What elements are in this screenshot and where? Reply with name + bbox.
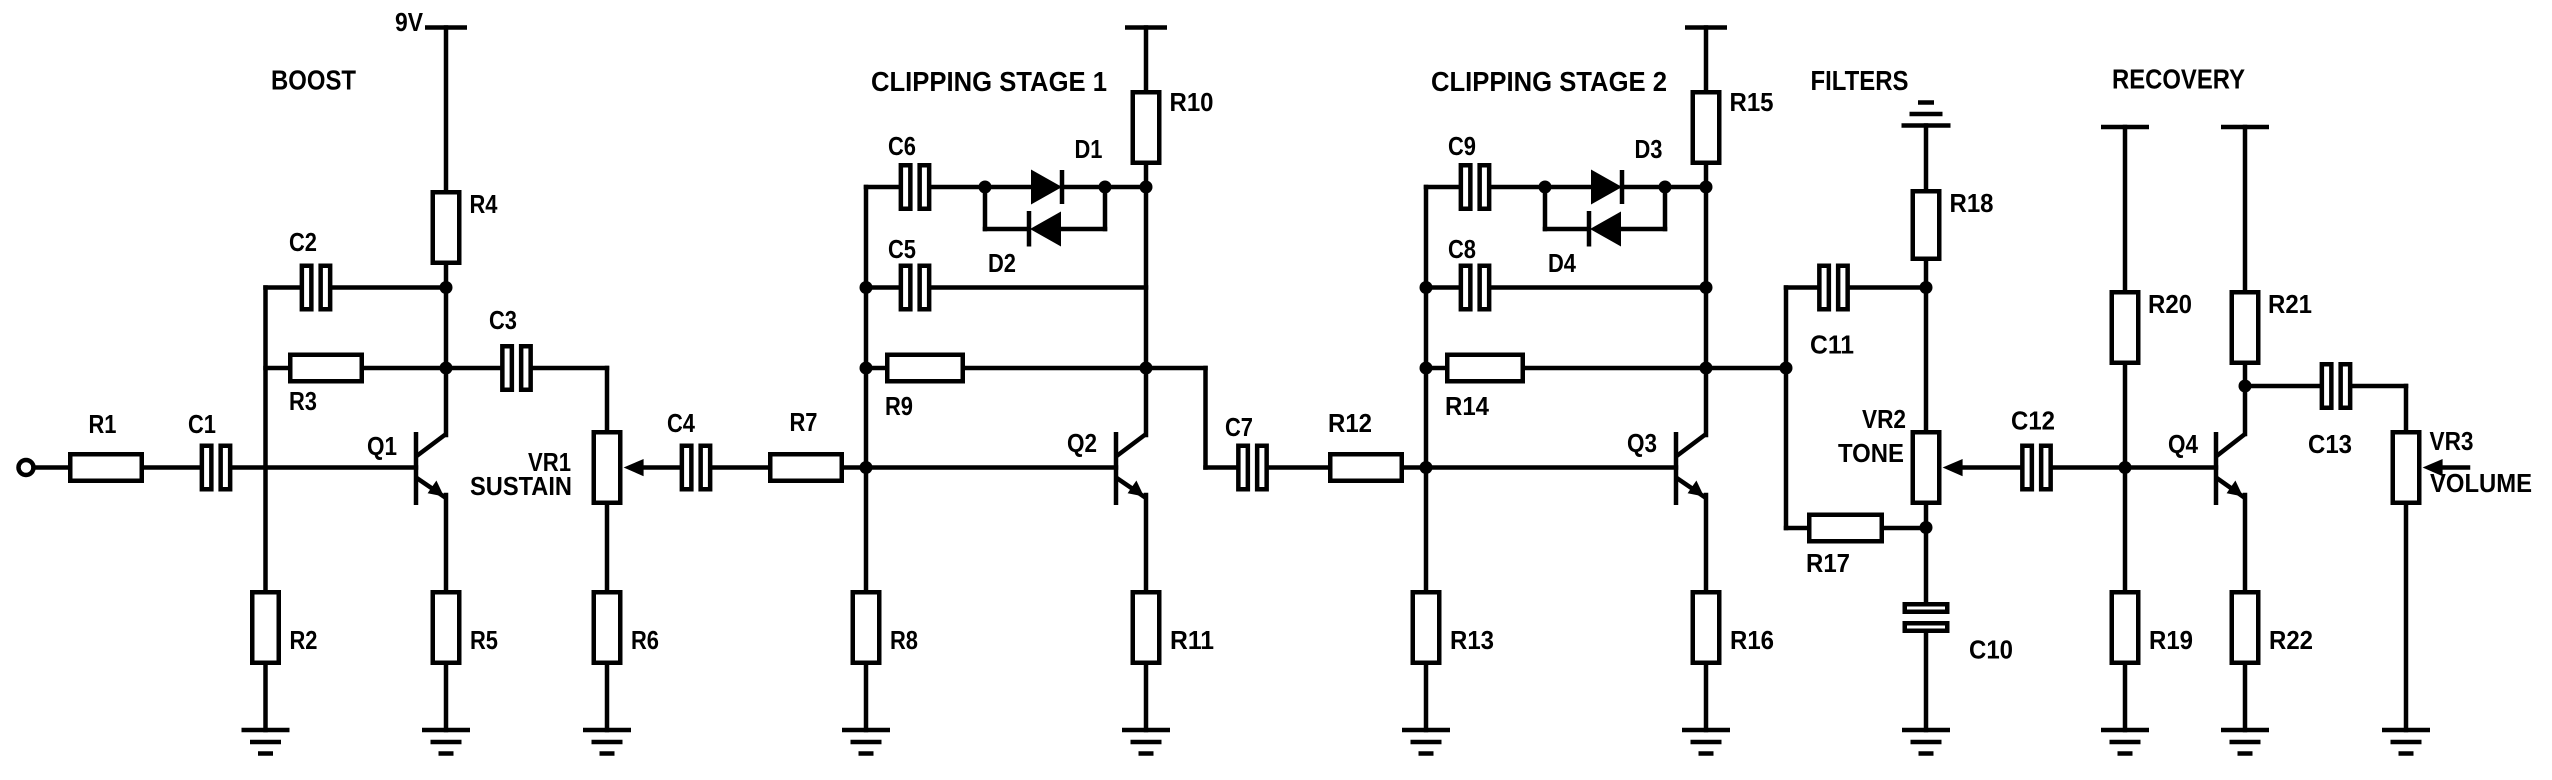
input terminal xyxy=(19,460,34,475)
wire xyxy=(1545,227,1587,232)
diode D2 xyxy=(1029,211,1061,247)
svg-text:BOOST: BOOST xyxy=(271,65,356,96)
svg-text:Q1: Q1 xyxy=(367,431,397,461)
svg-text:R19: R19 xyxy=(2149,625,2193,655)
resistor R14 xyxy=(1447,355,1523,382)
power rail bar recovery right xyxy=(2221,125,2269,130)
wire base to Q4 xyxy=(2125,465,2216,470)
svg-text:R21: R21 xyxy=(2268,289,2312,319)
wire xyxy=(1543,187,1548,229)
node Q4 collector / C13 xyxy=(2239,380,2252,393)
node feedback resistor / output xyxy=(1700,362,1713,375)
wire branch to R17 xyxy=(1786,526,1807,531)
resistor R10 xyxy=(1133,92,1160,163)
wire output of stage 2 xyxy=(1706,366,1786,371)
svg-text:C6: C6 xyxy=(888,131,916,161)
wiper arrow of VR1 xyxy=(624,459,680,476)
transistor Q1 xyxy=(416,432,446,505)
wire to C11 xyxy=(1786,285,1817,290)
wire rail to C5 xyxy=(866,285,899,290)
wire R20 to R19 xyxy=(2123,365,2128,590)
wire R7 to base rail xyxy=(844,465,866,470)
ground xyxy=(1402,730,1450,754)
ground xyxy=(1122,730,1170,754)
capacitor C6 xyxy=(901,165,929,209)
resistor R16 xyxy=(1693,592,1720,663)
node Q4 base / C12 xyxy=(2119,461,2132,474)
wire xyxy=(983,187,988,229)
wire VR2 to C10 xyxy=(1924,505,1929,602)
svg-text:D3: D3 xyxy=(1635,134,1663,164)
svg-text:D4: D4 xyxy=(1548,248,1576,278)
diode D1 xyxy=(1031,170,1062,205)
wire R11 to ground xyxy=(1144,665,1149,730)
ground xyxy=(242,730,290,754)
svg-text:9V: 9V xyxy=(395,7,424,37)
svg-text:VR2: VR2 xyxy=(1862,404,1906,434)
node Q1 collector / R3 / C3 xyxy=(440,362,453,375)
wire down to VR3 xyxy=(2404,386,2409,430)
wire rail to C2 xyxy=(266,285,300,290)
svg-text:C2: C2 xyxy=(289,227,317,257)
capacitor C5 xyxy=(901,266,929,310)
svg-text:R8: R8 xyxy=(890,625,918,655)
wire R22 to ground xyxy=(2243,665,2248,730)
svg-text:C7: C7 xyxy=(1225,412,1253,442)
wire R12 to stage 2 base rail xyxy=(1404,465,1426,470)
svg-text:R22: R22 xyxy=(2269,625,2313,655)
wire Q3 emitter down xyxy=(1704,495,1709,590)
svg-text:CLIPPING STAGE 1: CLIPPING STAGE 1 xyxy=(871,66,1107,97)
resistor R1 xyxy=(70,454,142,481)
wire C6 to diodes xyxy=(932,185,986,190)
wire to C13 xyxy=(2245,384,2320,389)
wire xyxy=(1663,187,1668,229)
svg-text:R17: R17 xyxy=(1806,548,1850,578)
resistor R6 xyxy=(594,592,621,663)
wire R14 to collector rail xyxy=(1525,366,1706,371)
wire VR1 to R6 xyxy=(605,505,610,590)
wire base rail xyxy=(864,187,869,590)
svg-text:R12: R12 xyxy=(1328,408,1372,438)
svg-text:R18: R18 xyxy=(1950,188,1994,218)
wire rail to R15 xyxy=(1704,28,1709,91)
wire xyxy=(1545,185,1591,190)
node Q1 collector / C2 xyxy=(440,281,453,294)
svg-text:C4: C4 xyxy=(667,408,695,438)
capacitor C12 xyxy=(2022,446,2050,490)
transistor Q4 xyxy=(2216,432,2245,505)
wire xyxy=(1621,227,1665,232)
wire R21 to Q4 collector xyxy=(2243,365,2248,434)
node C11 / tone rail xyxy=(1920,281,1933,294)
wire rail to R21 xyxy=(2243,127,2248,290)
wire Q4 emitter to R22 xyxy=(2243,495,2248,590)
svg-text:R6: R6 xyxy=(631,625,659,655)
resistor R21 xyxy=(2232,292,2259,363)
node base rail / cap xyxy=(860,281,873,294)
9V power rail bar xyxy=(425,25,467,30)
resistor R2 xyxy=(252,592,279,663)
wire rail to R14 xyxy=(1426,366,1445,371)
wire diodes to collector rail xyxy=(1105,185,1146,190)
wire R16 to ground xyxy=(1704,665,1709,730)
svg-text:R3: R3 xyxy=(289,386,317,416)
svg-text:TONE: TONE xyxy=(1838,438,1904,468)
capacitor C7 xyxy=(1238,446,1266,490)
diode D3 xyxy=(1591,170,1622,205)
wire rail to C9 xyxy=(1426,185,1459,190)
ground xyxy=(1682,730,1730,754)
svg-text:C1: C1 xyxy=(188,409,216,439)
wire C3 to VR1 branch xyxy=(533,366,607,371)
svg-text:Q3: Q3 xyxy=(1627,428,1657,458)
svg-text:R10: R10 xyxy=(1170,87,1214,117)
svg-text:RECOVERY: RECOVERY xyxy=(2112,64,2245,95)
node diode left xyxy=(1539,181,1552,194)
wire collector rail xyxy=(1144,165,1149,435)
potentiometer VR2 xyxy=(1913,432,1940,503)
svg-text:VR3: VR3 xyxy=(2430,426,2474,456)
resistor R4 xyxy=(433,192,460,263)
wire xyxy=(985,185,1031,190)
resistor R20 xyxy=(2112,292,2139,363)
wire output of stage 1 xyxy=(1146,366,1206,371)
resistor R8 xyxy=(853,592,880,663)
node base rail / feedback resistor xyxy=(860,362,873,375)
svg-text:R7: R7 xyxy=(790,407,818,437)
svg-text:R15: R15 xyxy=(1730,87,1774,117)
svg-text:R14: R14 xyxy=(1445,391,1489,421)
resistor R17 xyxy=(1809,515,1882,542)
wire down to VR1 xyxy=(605,368,610,430)
resistor R19 xyxy=(2112,592,2139,663)
wiper arrow of VR3 xyxy=(2423,459,2468,476)
resistor R18 xyxy=(1913,191,1940,259)
node base rail / cap xyxy=(1420,281,1433,294)
wire C7 to R12 xyxy=(1269,465,1328,470)
power rail bar stage 1 xyxy=(1125,25,1167,30)
capacitor C9 xyxy=(1461,165,1489,209)
capacitor C8 xyxy=(1461,266,1489,310)
wire rail to R9 xyxy=(866,366,885,371)
capacitor C10 xyxy=(1905,604,1948,631)
wire input to R1 xyxy=(34,465,69,470)
wire C13 to VR3 xyxy=(2352,384,2406,389)
svg-text:C11: C11 xyxy=(1810,330,1854,360)
node diode right xyxy=(1099,181,1112,194)
power rail bar recovery left xyxy=(2101,125,2149,130)
capacitor C1 xyxy=(202,446,230,490)
wire R13 to ground xyxy=(1424,665,1429,730)
svg-text:C8: C8 xyxy=(1448,234,1476,264)
wire rail symbol to R18 xyxy=(1924,126,1929,190)
resistor R11 xyxy=(1133,592,1160,663)
wire C8 to collector rail xyxy=(1492,285,1707,290)
svg-text:C13: C13 xyxy=(2308,429,2352,459)
svg-text:R20: R20 xyxy=(2148,289,2192,319)
wire C5 to collector rail xyxy=(932,285,1147,290)
resistor R3 xyxy=(290,355,362,382)
capacitor C11 xyxy=(1819,266,1847,310)
svg-text:C3: C3 xyxy=(489,305,517,335)
wire C2 to collector rail xyxy=(333,285,447,290)
wire rail to R20 xyxy=(2123,127,2128,290)
wire left rail (C2/R3/R2 node) xyxy=(263,288,268,591)
svg-text:C5: C5 xyxy=(888,234,916,264)
node base rail / base wire xyxy=(1420,461,1433,474)
wire C11/R17 left branch xyxy=(1784,288,1789,529)
wire Q2 emitter down xyxy=(1144,495,1149,590)
potentiometer VR3 xyxy=(2393,432,2420,503)
wire rail to R3 xyxy=(266,366,289,371)
wire R8 to ground xyxy=(864,665,869,730)
wire to C7 xyxy=(1206,465,1237,470)
wire xyxy=(1103,187,1108,229)
wire xyxy=(1622,185,1665,190)
svg-text:C10: C10 xyxy=(1969,635,2013,665)
wire R9 to collector rail xyxy=(965,366,1146,371)
wire R18 to VR2 xyxy=(1924,261,1929,430)
ground xyxy=(2221,730,2269,754)
svg-text:R9: R9 xyxy=(885,391,913,421)
wire output bend down xyxy=(1203,368,1208,468)
svg-text:D2: D2 xyxy=(988,248,1016,278)
svg-text:C9: C9 xyxy=(1448,131,1476,161)
resistor R5 xyxy=(433,592,460,663)
wire collector rail xyxy=(1704,165,1709,435)
wire R17 to tone rail xyxy=(1884,526,1926,531)
wire R3 to C3 xyxy=(364,366,500,371)
capacitor C13 xyxy=(2322,364,2350,408)
capacitor C2 xyxy=(302,266,330,310)
wire R6 to ground xyxy=(605,665,610,730)
wire rail to C8 xyxy=(1426,285,1459,290)
resistor R22 xyxy=(2232,592,2259,663)
svg-text:VOLUME: VOLUME xyxy=(2430,468,2532,498)
wire base rail xyxy=(1424,187,1429,590)
wiper arrow of VR2 xyxy=(1943,459,2021,476)
wire xyxy=(985,227,1027,232)
node C8 / collector rail xyxy=(1700,281,1713,294)
svg-text:R1: R1 xyxy=(89,409,117,439)
capacitor C3 xyxy=(502,346,530,390)
wire C12 to recovery base node xyxy=(2053,465,2125,470)
wire diodes to collector rail xyxy=(1665,185,1706,190)
wire C1 to Q1 base xyxy=(233,465,417,470)
wire C11 to tone rail xyxy=(1851,285,1926,290)
wire base rail to Q2 xyxy=(866,465,1116,470)
wire VR3 to ground xyxy=(2404,505,2409,730)
wire R19 to ground xyxy=(2123,665,2128,730)
svg-text:R5: R5 xyxy=(470,625,498,655)
potentiometer VR1 xyxy=(594,432,621,503)
svg-text:CLIPPING STAGE 2: CLIPPING STAGE 2 xyxy=(1431,66,1667,97)
node base rail / feedback resistor xyxy=(1420,362,1433,375)
node base rail / base wire xyxy=(860,461,873,474)
svg-text:R16: R16 xyxy=(1730,625,1774,655)
resistor R7 xyxy=(770,454,842,481)
diode D4 xyxy=(1589,211,1621,247)
wire rail to R10 xyxy=(1144,28,1149,91)
transistor Q3 xyxy=(1676,432,1706,505)
wire R5 to ground xyxy=(444,665,449,730)
svg-text:R4: R4 xyxy=(470,189,498,219)
svg-text:FILTERS: FILTERS xyxy=(1811,65,1909,96)
resistor R15 xyxy=(1693,92,1720,163)
wire R2 to ground xyxy=(263,665,268,730)
wire base rail to Q3 xyxy=(1426,465,1676,470)
power rail bar stage 2 xyxy=(1685,25,1727,30)
wire R1 to C1 xyxy=(144,465,200,470)
node feedback resistor / output xyxy=(1140,362,1153,375)
wire xyxy=(1062,185,1105,190)
node diode right xyxy=(1659,181,1672,194)
wire 9V to R4 xyxy=(444,28,449,191)
transistor Q2 xyxy=(1116,432,1146,505)
power rail symbol (inverted ground) xyxy=(1902,103,1951,126)
resistor R13 xyxy=(1413,592,1440,663)
ground xyxy=(2382,730,2430,754)
node diode/collector rail xyxy=(1700,181,1713,194)
resistor R9 xyxy=(887,355,963,382)
wire C9 to diodes xyxy=(1492,185,1546,190)
svg-text:SUSTAIN: SUSTAIN xyxy=(470,471,572,501)
node stage 2 output / C11 branch xyxy=(1780,362,1793,375)
resistor R12 xyxy=(1330,454,1402,481)
svg-text:Q4: Q4 xyxy=(2168,429,2198,459)
capacitor C4 xyxy=(682,446,710,490)
ground xyxy=(583,730,631,754)
ground xyxy=(2101,730,2149,754)
wire C4 to R7 xyxy=(713,465,769,470)
svg-text:Q2: Q2 xyxy=(1067,428,1097,458)
wire xyxy=(1061,227,1105,232)
ground xyxy=(842,730,890,754)
svg-text:D1: D1 xyxy=(1075,134,1103,164)
ground xyxy=(1902,730,1950,754)
ground xyxy=(422,730,470,754)
svg-text:R13: R13 xyxy=(1450,625,1494,655)
svg-text:C12: C12 xyxy=(2011,406,2055,436)
wire C10 to ground xyxy=(1924,633,1929,730)
wire R4 to Q1 collector xyxy=(444,265,449,435)
wire rail to C6 xyxy=(866,185,899,190)
svg-text:R2: R2 xyxy=(290,625,318,655)
svg-text:R11: R11 xyxy=(1170,625,1214,655)
wire Q1 emitter to R5 xyxy=(444,495,449,590)
node diode left xyxy=(979,181,992,194)
node VR2 / R17 / C10 xyxy=(1920,521,1933,534)
node diode/collector rail xyxy=(1140,181,1153,194)
